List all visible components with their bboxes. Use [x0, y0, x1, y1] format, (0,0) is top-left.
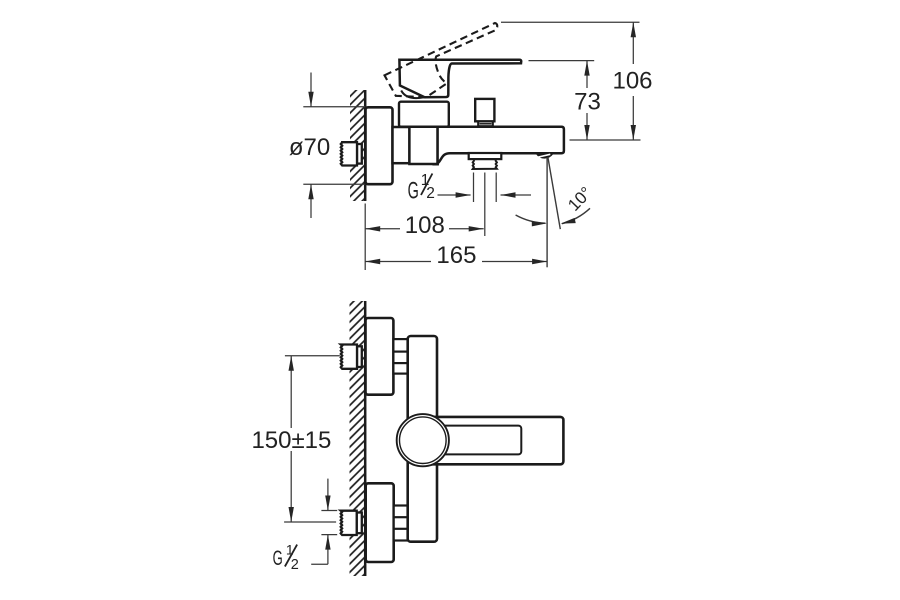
svg-text:150±15: 150±15	[251, 427, 331, 454]
svg-text:108: 108	[405, 212, 445, 239]
svg-text:ø70: ø70	[289, 134, 330, 161]
svg-text:106: 106	[612, 68, 652, 95]
svg-text:1: 1	[286, 542, 294, 558]
svg-text:G: G	[273, 546, 283, 570]
svg-text:G: G	[408, 178, 419, 205]
svg-text:2: 2	[291, 557, 299, 573]
svg-text:73: 73	[574, 88, 601, 115]
svg-text:2: 2	[426, 185, 435, 202]
svg-text:165: 165	[436, 242, 476, 269]
